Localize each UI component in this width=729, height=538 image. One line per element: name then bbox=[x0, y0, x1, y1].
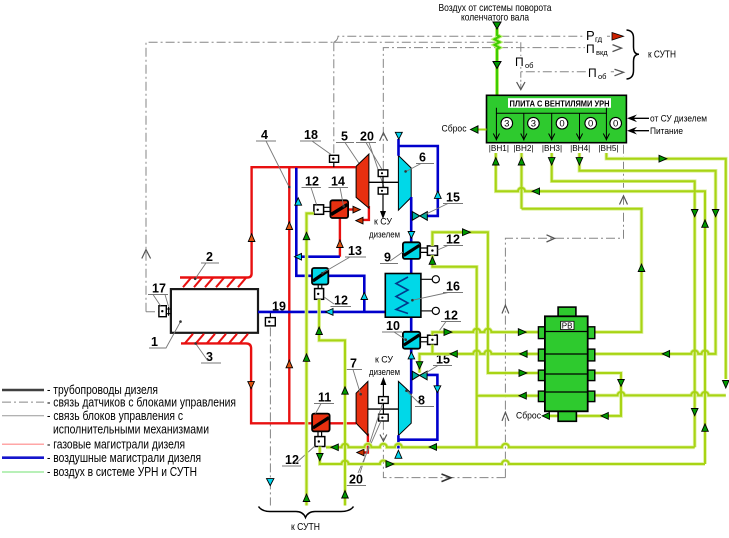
wire blue valve 13 to left riser bbox=[296, 168, 312, 276]
labels VN1..VN5 bbox=[489, 144, 619, 153]
turbocharger shaft (top) bbox=[369, 181, 399, 183]
label 12 (valve 14 sensor) bbox=[302, 175, 322, 205]
svg-text:к СУТН: к СУТН bbox=[648, 49, 676, 61]
wire green from sensor 12 of valve 13 down and over bbox=[319, 299, 345, 505]
wire blue compressor 6 discharge to valve 9 to cooler bbox=[410, 197, 413, 274]
red arrow up on manifold riser bbox=[248, 234, 255, 242]
arrow up green below valve 9 sensor bbox=[429, 257, 436, 264]
svg-text:0: 0 bbox=[559, 119, 564, 130]
svg-text:дизелем: дизелем bbox=[369, 367, 400, 377]
svg-text:12: 12 bbox=[285, 453, 299, 467]
arrow right green on RV row1 (left) bbox=[444, 329, 452, 336]
svg-text:13: 13 bbox=[348, 244, 362, 258]
cyan arrow intake compressor 8 (up) bbox=[395, 450, 402, 458]
arrow left green sbros (right of tab) bbox=[601, 413, 608, 420]
svg-text:12: 12 bbox=[444, 309, 458, 323]
svg-text:|ВН2|: |ВН2| bbox=[513, 144, 533, 153]
open arrow on P_vkd line end bbox=[613, 45, 622, 52]
arrow left green on RV row2 right run bbox=[662, 351, 669, 358]
wire blue branch to valve 14 drop bbox=[296, 255, 340, 258]
turbine 7 bbox=[356, 381, 368, 435]
legend: diesel piping bbox=[2, 389, 44, 392]
label P_vkd bbox=[585, 42, 611, 57]
cyan arrow up below valve 10 bbox=[408, 352, 415, 359]
air distributor RV bbox=[538, 307, 594, 421]
open arrow down on bottom sensor 20 line bbox=[380, 435, 387, 442]
arrow up green on x306.5 (3) bbox=[303, 494, 310, 501]
label 9 bbox=[380, 251, 403, 265]
svg-text:от СУ дизелем: от СУ дизелем bbox=[650, 114, 707, 124]
legend: control unit links bbox=[2, 415, 44, 417]
svg-text:Сброс: Сброс bbox=[442, 124, 467, 135]
wire green VN4 riser and run to x715.6, down to RV row2 bbox=[579, 153, 715, 354]
svg-text:0: 0 bbox=[588, 119, 593, 130]
svg-text:исполнительными механизмами: исполнительными механизмами bbox=[53, 421, 209, 436]
wire blue bottom bypass loop (valve 15) bbox=[398, 375, 437, 449]
compressor 8 bbox=[398, 381, 411, 435]
arrow up green on x641.5 bbox=[638, 264, 645, 271]
red arrow right valve 14 outlet bbox=[353, 206, 360, 213]
arrow down green on x694.7 (bottom) bbox=[691, 409, 698, 416]
arrow down green on sbros loop x621 bbox=[618, 380, 625, 387]
curly brace k SUTN (bottom) bbox=[259, 507, 354, 518]
svg-text:7: 7 bbox=[350, 357, 357, 371]
arrow down green on x694.7 (top) bbox=[691, 210, 698, 217]
sensor 20 lower (top turbo) bbox=[378, 188, 388, 195]
legend: sensor links bbox=[2, 401, 44, 403]
manifold 3 (bottom, hatched) bbox=[185, 334, 248, 343]
valve 9 bbox=[403, 242, 420, 259]
arrow down green on bowtie riser bbox=[416, 362, 423, 369]
engine 1 (diesel) bbox=[171, 289, 258, 333]
arrow right green on horizontal 2 bbox=[386, 461, 394, 468]
label 13 bbox=[321, 244, 366, 275]
sensor 19 bbox=[265, 312, 275, 326]
arrow up green on x705 (bottom) bbox=[702, 424, 709, 431]
legend: gas mains bbox=[2, 443, 44, 445]
arrow Pitanie into plate bbox=[630, 130, 649, 132]
open arrow up on x505 line (2) bbox=[502, 412, 509, 421]
arrow left green on horizontal 1 (near sensor) bbox=[331, 444, 338, 451]
wire green VN3 riser and run to x694.7 bbox=[552, 153, 695, 447]
sensor 12 of valve 13 bbox=[315, 285, 324, 300]
svg-text:12: 12 bbox=[446, 233, 460, 247]
sensor 20 upper (bottom turbo) bbox=[379, 397, 389, 404]
svg-text:гд: гд bbox=[595, 35, 603, 44]
wire green RV row3 right to sbros loop bbox=[576, 373, 621, 416]
red arrow on P_gd line end bbox=[612, 33, 624, 41]
arrow left green on RV row2 (near bowtie) bbox=[450, 351, 457, 358]
wire green long horizontal 2 (valve 11 sensor stub to VN1 riser) bbox=[320, 447, 705, 465]
arrow right green on VN5 run bbox=[659, 155, 667, 162]
arrow down green below sensor 12 of valve 11 bbox=[317, 454, 324, 461]
sensor 12 of valve 14 bbox=[314, 205, 331, 215]
legend: air mains bbox=[2, 456, 44, 459]
red arrow up on valve 14 drop line bbox=[337, 240, 344, 248]
svg-text:к СУТН: к СУТН bbox=[291, 521, 320, 533]
arrow down on supply line (1) bbox=[493, 22, 501, 29]
arrow left green on VN1 run bbox=[532, 188, 539, 195]
wire blue bypass riser to valve 13 bbox=[328, 276, 364, 312]
sensor 12 of valve 9 bbox=[420, 246, 437, 255]
turbine 5 bbox=[356, 154, 369, 208]
svg-text:об: об bbox=[598, 72, 606, 81]
svg-text:П: П bbox=[588, 66, 597, 80]
svg-text:18: 18 bbox=[304, 128, 318, 142]
svg-text:Сброс: Сброс bbox=[516, 411, 541, 422]
wire red line valve 14 to blue junction bbox=[339, 218, 341, 257]
arrow up green on x306.5 (1) bbox=[303, 232, 310, 239]
svg-text:17: 17 bbox=[152, 282, 166, 296]
valve 10 bbox=[403, 332, 420, 349]
svg-text:- воздушные магистрали дизеля: - воздушные магистрали дизеля bbox=[47, 450, 201, 465]
label 6 bbox=[404, 151, 434, 173]
open arrow down P_ob into plate bbox=[517, 82, 525, 90]
svg-text:2: 2 bbox=[206, 250, 213, 264]
red arrow down on bottom manifold line bbox=[248, 382, 255, 389]
wire dash-dot P_ob drop into valve plate bbox=[520, 72, 522, 89]
arrow up green on x345 (1) bbox=[342, 387, 349, 394]
label 8 bbox=[405, 389, 434, 407]
wire blue top bypass loop (valve 15) bbox=[399, 139, 438, 216]
wire green VN5 riser and run to x725.8 down to RV row4 bbox=[606, 153, 725, 379]
label 10 bbox=[382, 319, 407, 341]
red arrow up on line 4 (bottom) bbox=[286, 360, 293, 368]
valve plate URN box bbox=[487, 95, 627, 142]
arrow down green VN3 riser bbox=[548, 158, 555, 165]
valve 15 (top bowtie) bbox=[412, 212, 427, 221]
wire dash-dot P_vkd line with jog bbox=[334, 42, 612, 47]
sensor 18 bbox=[330, 155, 339, 167]
arrow up green on x705 (top) bbox=[702, 220, 709, 227]
svg-text:20: 20 bbox=[349, 473, 363, 487]
wire green valve 9 sensor bottom stub down x476.7 bbox=[432, 255, 476, 447]
label 16 bbox=[411, 280, 463, 302]
wire red gas line valve 11 to turbine 7 bbox=[330, 422, 357, 424]
label 15 (top) bbox=[425, 191, 463, 215]
arrow down on supply line (2) bbox=[493, 62, 501, 69]
sensor 12 of valve 10 bbox=[420, 335, 437, 344]
wire red gas line from top manifold to turbine 5 bbox=[180, 167, 356, 277]
label 12 (valve 11 sensor) bbox=[282, 446, 315, 467]
arrow left green on RV row4 bbox=[519, 392, 526, 399]
svg-text:Р: Р bbox=[586, 28, 595, 43]
label 2 bbox=[194, 250, 219, 280]
wire green RV row2 to bowtie 15 and valve 10 sensor stub bbox=[420, 350, 539, 372]
cyan arrow left on charge line y311.9 bbox=[326, 309, 334, 316]
label 14 bbox=[329, 175, 349, 208]
open arrow right on line to plate (bottom) bbox=[442, 474, 451, 482]
sensor 20 upper (top turbo) bbox=[378, 170, 388, 177]
label 11 bbox=[314, 391, 334, 414]
cyan arrow intake compressor 6 (down) bbox=[395, 132, 402, 139]
valve VN4 stem bbox=[579, 113, 581, 140]
wire red exhaust from turbine 7 bbox=[363, 434, 368, 453]
wire blue charge air: cooler to engine bbox=[258, 311, 385, 314]
sensor 17 (with fitting) bbox=[159, 306, 171, 317]
sensor 12 of valve 11 bbox=[315, 431, 325, 446]
label 4 bbox=[256, 128, 291, 188]
label 20 (top) bbox=[356, 130, 384, 188]
cyan arrow up on top bypass x437.8 bbox=[434, 191, 441, 198]
svg-text:3: 3 bbox=[504, 119, 509, 130]
svg-text:12: 12 bbox=[305, 175, 319, 189]
svg-text:дизелем: дизелем bbox=[369, 230, 400, 240]
valve 13 bbox=[312, 268, 328, 285]
label 7 bbox=[346, 357, 362, 396]
label 12 (valve 13 sensor) bbox=[324, 294, 351, 308]
valve 11 bbox=[312, 414, 330, 432]
wire dash-dot from sensor 18 bbox=[333, 42, 335, 155]
svg-text:0: 0 bbox=[613, 119, 618, 130]
arrow from SU dieselem into plate bbox=[630, 117, 649, 119]
wire dash-dot sensor line from sensor 17 up left side bbox=[146, 42, 334, 311]
svg-text:20: 20 bbox=[360, 130, 374, 144]
wire red gas line from bottom manifold to valve 11 bbox=[181, 343, 312, 423]
label 12 (valve 10 sensor, long leader) bbox=[434, 309, 461, 339]
turbocharger shaft (bottom) bbox=[368, 408, 399, 410]
cyan arrow up on blue riser x296 bbox=[295, 198, 302, 205]
wire green from sensor 12 of valve 14 down to SUTN bbox=[307, 213, 314, 505]
open arrow right on x505-x623 link bbox=[547, 235, 555, 242]
label 1 bbox=[149, 320, 182, 349]
label 19 bbox=[268, 300, 288, 314]
wire dash-dot P_ob line from turbo sensor 20 bbox=[383, 48, 614, 170]
wire green RV row4 right line bbox=[595, 392, 726, 395]
svg-text:- воздух в системе УРН и СУТН: - воздух в системе УРН и СУТН bbox=[47, 464, 197, 479]
cyan arrow down above valve 9 bbox=[408, 232, 415, 239]
svg-text:11: 11 bbox=[318, 391, 331, 405]
arrow up green on x306.5 (2) bbox=[303, 354, 310, 361]
wire red gas line 4 (vertical to bottom turbo) bbox=[288, 167, 290, 423]
svg-text:12: 12 bbox=[334, 294, 348, 308]
label 3 bbox=[194, 342, 221, 364]
label 20 (bottom) bbox=[345, 404, 383, 487]
wire green long horizontal 1 (valve 11 sensor to VN3 riser) bbox=[326, 444, 695, 447]
label P_gd bbox=[585, 28, 607, 44]
arrow to SU dieselem (top turbo) bbox=[382, 194, 384, 212]
svg-text:Питание: Питание bbox=[650, 126, 683, 136]
arrow down green end of VN5 riser at row4 bbox=[723, 381, 729, 389]
valve state indicator circles bbox=[501, 117, 622, 129]
arrow right green on RV row3 bbox=[519, 370, 527, 377]
label 5 bbox=[336, 130, 364, 171]
open arrow up on P_ob sensor line bbox=[380, 133, 388, 141]
wire green valve 9 sensor loop to RV row3 bbox=[432, 232, 538, 373]
svg-text:П: П bbox=[515, 55, 524, 69]
svg-text:14: 14 bbox=[331, 175, 345, 189]
svg-text:|ВН1|: |ВН1| bbox=[489, 144, 509, 153]
label P_ob (near vertical) bbox=[514, 55, 534, 70]
arrow down green VN4 riser bbox=[576, 158, 583, 165]
svg-text:10: 10 bbox=[386, 319, 400, 333]
legend: URN/SUTN air bbox=[2, 471, 44, 473]
svg-text:к СУ: к СУ bbox=[375, 355, 393, 365]
svg-text:8: 8 bbox=[418, 394, 425, 408]
arrow up green on x345 (2) bbox=[342, 491, 349, 498]
svg-text:вкд: вкд bbox=[596, 48, 608, 57]
svg-text:6: 6 bbox=[419, 151, 426, 165]
wire green VN2 riser bbox=[521, 153, 523, 209]
red arrow left turbine 7 exhaust bbox=[357, 449, 364, 456]
label P_ob (right) bbox=[587, 66, 609, 81]
compressor 6 bbox=[398, 156, 411, 211]
wire blue cooler to valve 10 to compressor 8 bbox=[410, 317, 413, 394]
valve VN5 stem bbox=[605, 113, 607, 140]
wire green air supply line with squiggle bbox=[495, 28, 500, 96]
svg-text:16: 16 bbox=[446, 280, 460, 294]
svg-text:РВ: РВ bbox=[562, 321, 573, 330]
valve 15 (bottom bowtie) bbox=[412, 371, 427, 380]
arrow up green VN2 riser bbox=[518, 158, 525, 165]
svg-text:|ВН4|: |ВН4| bbox=[570, 144, 590, 153]
label 18 bbox=[300, 128, 331, 155]
svg-text:3: 3 bbox=[206, 350, 213, 364]
wire green RV row1 right to VN2 bbox=[522, 209, 642, 332]
curly brace to SUTN (top right) bbox=[627, 30, 640, 79]
wire green RV bottom tab to sbros arrow bbox=[550, 415, 559, 417]
valve VN3 stem bbox=[551, 113, 553, 140]
svg-text:ПЛИТА С ВЕНТИЛЯМИ УРН: ПЛИТА С ВЕНТИЛЯМИ УРН bbox=[510, 98, 610, 108]
manifold 2 (top, hatched) bbox=[183, 278, 246, 287]
wire green valve 10 sensor to RV row1 bbox=[432, 329, 538, 336]
cooler 16 bbox=[385, 274, 421, 318]
arrow right green on valve9 loop top bbox=[463, 229, 471, 236]
cyan arrow up on valve13 riser x364 bbox=[361, 292, 368, 299]
red arrow left turbine 5 exhaust bbox=[356, 217, 363, 224]
open arrow up on x505 line (1) bbox=[502, 305, 509, 313]
thermo contact circle (upper) bbox=[421, 278, 432, 280]
open arrow on P_ob line end bbox=[615, 69, 624, 76]
wire dash-dot from sensor 19 down to SUTN brace bbox=[269, 327, 271, 505]
arrow left green on RV row2 (near tab) bbox=[520, 351, 527, 358]
svg-text:к СУ: к СУ bbox=[374, 217, 392, 227]
svg-text:|ВН5|: |ВН5| bbox=[598, 144, 618, 153]
open arrow up on x623 line bbox=[620, 196, 628, 205]
svg-text:3: 3 bbox=[531, 119, 536, 130]
wire green VN1 riser and run to x705 bbox=[496, 153, 705, 464]
wire red line valve 14 outlet bbox=[348, 208, 354, 210]
label 12 (valve 9 sensor) bbox=[438, 233, 464, 251]
arrow down green on x715.6 bbox=[712, 210, 719, 217]
cyan arrow left on blue branch y256.7 bbox=[295, 253, 302, 260]
svg-text:об: об bbox=[525, 61, 533, 70]
label 15 (bottom) bbox=[425, 353, 453, 374]
svg-text:5: 5 bbox=[341, 130, 348, 144]
wire green RV row4 left line bbox=[477, 395, 539, 397]
svg-text:4: 4 bbox=[261, 128, 268, 142]
svg-text:П: П bbox=[586, 42, 595, 56]
cyan arrow down on bottom bypass x437.4 bbox=[434, 386, 441, 393]
open arrow up on sensor17 line bbox=[142, 250, 151, 259]
arrow left green on horizontal 1 (near compressor 8) bbox=[429, 444, 436, 451]
thermo contact circle (lower) bbox=[421, 310, 432, 312]
arrow to SU dieselem (bottom turbo) bbox=[382, 384, 384, 397]
valve VN1 stem bbox=[493, 113, 609, 140]
wire red exhaust from turbine 5 bbox=[362, 206, 369, 220]
svg-text:9: 9 bbox=[384, 251, 391, 265]
svg-text:15: 15 bbox=[446, 191, 460, 205]
cyan arrow down on sensor 19 line bbox=[267, 479, 274, 486]
red arrow up on line 4 (top) bbox=[286, 222, 293, 230]
svg-text:1: 1 bbox=[151, 335, 158, 349]
valve 14 bbox=[330, 200, 348, 218]
wire dash-dot from bottom turbo sensor 20 to valve plate bbox=[383, 421, 505, 478]
arrow up green on x319.1 bbox=[316, 327, 323, 334]
arrow left green sbros (at text) bbox=[542, 413, 549, 420]
wire dash-dot P_gd line to SUTN bbox=[334, 36, 610, 42]
sensor 20 lower (bottom turbo) bbox=[379, 414, 389, 421]
label 17 bbox=[148, 282, 168, 307]
arrow right green on RV row1 (near tab) bbox=[518, 329, 526, 336]
valve VN2 stem bbox=[523, 113, 525, 140]
svg-text:|ВН3|: |ВН3| bbox=[542, 144, 562, 153]
green line halo underlay bbox=[307, 153, 726, 506]
arrow up green VN1 riser bbox=[493, 158, 500, 165]
